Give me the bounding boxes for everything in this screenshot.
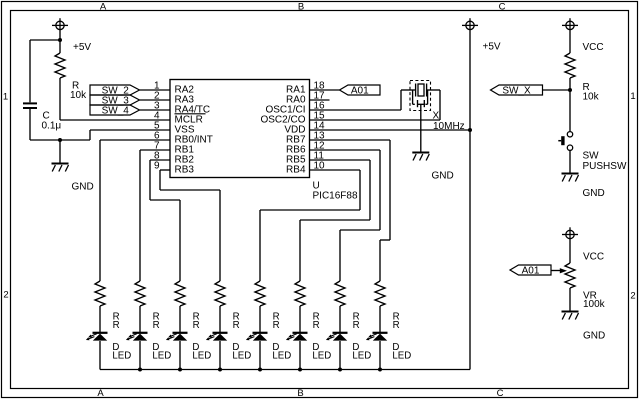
- wire pin 12 RB6 to LED column 7: [310, 149, 381, 151]
- svg-text:A01: A01: [351, 86, 369, 97]
- wire LED 1 to rail: [99, 341, 101, 370]
- svg-text:LED: LED: [192, 350, 211, 361]
- node junction rail column 6: [298, 368, 302, 372]
- net flag A01 top: [340, 85, 381, 97]
- resistor R LED column 2: [135, 281, 145, 332]
- LED D3: [166, 333, 188, 341]
- wire SW_3 to pin 2: [140, 99, 171, 101]
- power VCC symbol: [562, 18, 578, 53]
- svg-text:1: 1: [630, 91, 635, 102]
- wire pin 6 RB0 to LED column 1: [100, 139, 170, 141]
- resistor R LED column 6: [295, 281, 305, 332]
- svg-text:PIC16F88: PIC16F88: [313, 191, 358, 202]
- svg-text:+5V: +5V: [483, 41, 501, 52]
- node junction rail column 2: [138, 368, 142, 372]
- power VCC symbol VR: [562, 227, 578, 263]
- node junction at +5V rail: [58, 38, 62, 42]
- svg-text:GND: GND: [432, 170, 454, 181]
- resistor R LED column 1: [95, 281, 105, 332]
- svg-text:PUSHSW: PUSHSW: [583, 161, 627, 172]
- wire A01 flag to wiper: [551, 270, 561, 272]
- svg-text:10MHz: 10MHz: [433, 121, 465, 132]
- svg-text:LED: LED: [232, 350, 251, 361]
- node junction rail column 7: [338, 368, 342, 372]
- svg-text:LED: LED: [272, 350, 291, 361]
- wire LED 8 to rail: [379, 341, 381, 370]
- svg-text:10k: 10k: [583, 92, 600, 103]
- wire LED anode rail: [100, 369, 470, 371]
- ground symbol pushbutton: [562, 174, 579, 182]
- LED D5: [246, 333, 268, 341]
- svg-text:GND: GND: [583, 188, 605, 199]
- wire SW_2 to pin 1: [140, 89, 171, 91]
- resistor R LED column 5: [255, 281, 265, 332]
- svg-text:B: B: [297, 388, 303, 399]
- wire junction to switch: [569, 90, 571, 132]
- capacitor C 0.1u: [23, 103, 37, 108]
- resistor R LED column 7: [335, 281, 345, 332]
- svg-text:R: R: [353, 320, 360, 331]
- svg-text:SW_4: SW_4: [102, 106, 130, 117]
- svg-text:R: R: [113, 320, 120, 331]
- svg-text:LED: LED: [152, 350, 171, 361]
- wire capacitor top lead: [29, 40, 31, 102]
- wire pin 10 RB4 to LED column 5: [310, 169, 361, 171]
- crystal resonator X 10MHz: [410, 81, 431, 111]
- svg-text:SW: SW: [583, 150, 600, 161]
- wire capacitor bottom lead: [29, 109, 31, 140]
- power +5V symbol right: [462, 18, 478, 29]
- svg-text:LED: LED: [352, 350, 371, 361]
- svg-text:C: C: [499, 1, 506, 12]
- wire +5V to capacitor branch: [30, 39, 60, 41]
- wire SW_4 to pin 3: [140, 109, 171, 111]
- net flag A01 bottom: [510, 265, 551, 277]
- svg-text:GND: GND: [72, 181, 94, 192]
- LED D6: [286, 333, 308, 341]
- IC U PIC16F88 body: [170, 80, 310, 178]
- resistor R LED column 3: [175, 281, 185, 332]
- wire LED 2 to rail: [139, 341, 141, 370]
- wire +5V vertical rail: [469, 30, 471, 370]
- svg-text:GND: GND: [583, 330, 605, 341]
- svg-text:R: R: [153, 320, 160, 331]
- ground symbol VR: [562, 312, 579, 320]
- net flag SW_X: [491, 85, 543, 97]
- svg-text:LED: LED: [112, 350, 131, 361]
- wire resonator center to ground: [420, 104, 422, 152]
- wire switch to ground: [569, 150, 571, 173]
- wire pin 18 RA1 to A01 flag: [310, 89, 340, 91]
- wire VSS riser: [89, 130, 91, 140]
- LED D1: [86, 333, 108, 341]
- wire MCLR pull-up to pin 4: [60, 119, 170, 121]
- LED D2: [126, 333, 148, 341]
- wire pin 11 RB5 to LED column 6: [310, 159, 371, 161]
- svg-text:+5V: +5V: [73, 42, 91, 53]
- wire ground rail: [30, 139, 90, 141]
- switch SW PUSHSW: [558, 132, 572, 151]
- svg-text:10k: 10k: [70, 90, 87, 101]
- wiper arrow: [560, 268, 567, 273]
- LED D8: [366, 333, 388, 341]
- ground symbol left: [52, 140, 69, 172]
- svg-text:2: 2: [3, 290, 8, 301]
- node junction SW_X: [568, 88, 572, 92]
- wire pin 16 OSC1 to resonator: [310, 109, 402, 111]
- svg-text:R: R: [273, 320, 280, 331]
- ground symbol resonator: [412, 153, 429, 161]
- svg-text:C: C: [497, 388, 504, 399]
- svg-text:SW_X: SW_X: [502, 86, 531, 97]
- wire pin 15 OSC2 to resonator: [310, 119, 441, 121]
- wire pin 7 RB1 to LED column 2: [140, 149, 170, 151]
- svg-text:A: A: [100, 1, 107, 12]
- wire pin 14 VDD to +5V rail: [310, 129, 471, 131]
- svg-text:RB4: RB4: [286, 164, 306, 175]
- svg-text:1: 1: [3, 92, 8, 103]
- LED D4: [206, 333, 228, 341]
- svg-text:R: R: [313, 320, 320, 331]
- wire LED 6 to rail: [299, 341, 301, 370]
- resistor R LED column 8: [375, 281, 385, 332]
- power +5V symbol left: [52, 18, 68, 40]
- svg-text:2: 2: [630, 291, 635, 302]
- net flag SW_2: [90, 85, 140, 97]
- wire SW_X flag to junction: [543, 89, 571, 91]
- svg-text:X: X: [433, 110, 440, 121]
- wire pin 9 RB3 to LED column 4: [160, 169, 170, 171]
- net flag SW_4: [90, 105, 140, 117]
- potentiometer VR 100k: [565, 263, 575, 311]
- resistor R 10k pull-up: [55, 40, 65, 120]
- net flag SW_3: [90, 95, 140, 107]
- wire LED 5 to rail: [259, 341, 261, 370]
- node junction ground rail: [58, 138, 62, 142]
- wire pin 8 RB2 to LED column 3: [150, 159, 170, 161]
- resistor R 10k switch pull-up: [565, 53, 575, 90]
- node junction rail column 8: [378, 368, 382, 372]
- svg-text:LED: LED: [312, 350, 331, 361]
- node junction rail column 5: [258, 368, 262, 372]
- svg-text:0.1μ: 0.1μ: [42, 121, 62, 132]
- wire LED 3 to rail: [179, 341, 181, 370]
- svg-text:R: R: [193, 320, 200, 331]
- svg-text:VCC: VCC: [583, 42, 604, 53]
- svg-text:100k: 100k: [583, 299, 606, 310]
- svg-text:R: R: [233, 320, 240, 331]
- svg-text:RB3: RB3: [175, 164, 195, 175]
- node junction rail column 3: [178, 368, 182, 372]
- LED D7: [326, 333, 348, 341]
- svg-text:VCC: VCC: [583, 251, 604, 262]
- svg-text:9: 9: [154, 160, 160, 171]
- svg-text:A: A: [97, 388, 104, 399]
- wire VSS to pin 5: [90, 129, 170, 131]
- svg-text:LED: LED: [392, 350, 411, 361]
- wire pin 13 RB7 to LED column 8: [310, 139, 391, 141]
- node junction VDD: [468, 128, 472, 132]
- node junction rail column 4: [218, 368, 222, 372]
- wire LED 4 to rail: [219, 341, 221, 370]
- resistor R LED column 4: [215, 281, 225, 332]
- svg-text:B: B: [298, 1, 304, 12]
- svg-text:R: R: [393, 320, 400, 331]
- svg-text:A01: A01: [522, 266, 540, 277]
- MCLR overline: [175, 113, 206, 115]
- wire pin 17 RA0 stub: [310, 99, 330, 101]
- wire LED 7 to rail: [339, 341, 341, 370]
